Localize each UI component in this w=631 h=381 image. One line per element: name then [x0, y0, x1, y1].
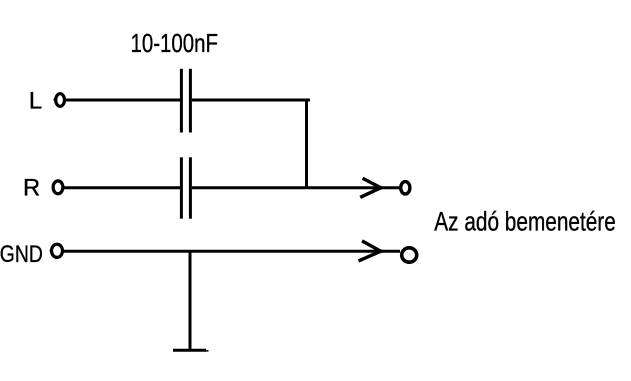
wire R to capacitor	[64, 186, 180, 189]
tick left of L terminal	[54, 99, 56, 101]
terminal L	[56, 94, 65, 107]
ground bar tail	[205, 350, 209, 352]
capacitor C1 left plate	[180, 69, 183, 133]
ground bar	[173, 349, 206, 352]
svg-text:R: R	[23, 174, 40, 201]
terminal R	[53, 181, 63, 194]
svg-text:GND: GND	[0, 241, 43, 268]
capacitor C2 left plate	[180, 157, 183, 218]
ground stem wire	[189, 251, 192, 350]
svg-text:Az adó bemenetére: Az adó bemenetére	[434, 206, 616, 236]
capacitor C2 right plate	[189, 157, 192, 218]
arrow on GND wire	[359, 241, 383, 261]
wire L to capacitor	[66, 99, 180, 102]
tick left of GND terminal	[50, 250, 52, 252]
output terminal (R)	[401, 182, 410, 194]
output terminal (GND)	[402, 248, 417, 262]
wire GND	[64, 250, 381, 253]
svg-text:10-100nF: 10-100nF	[131, 28, 219, 58]
wire C2 to output	[192, 186, 381, 189]
svg-text:L: L	[29, 88, 42, 115]
capacitor C1 right plate	[189, 69, 192, 133]
wire C1 to corner	[192, 99, 310, 102]
arrow on R output wire	[360, 178, 382, 197]
terminal GND	[52, 244, 63, 257]
wire arrow to output terminal	[380, 186, 400, 189]
wire vertical junction L to R line	[305, 100, 308, 189]
wire arrow to GND output terminal	[380, 250, 400, 253]
